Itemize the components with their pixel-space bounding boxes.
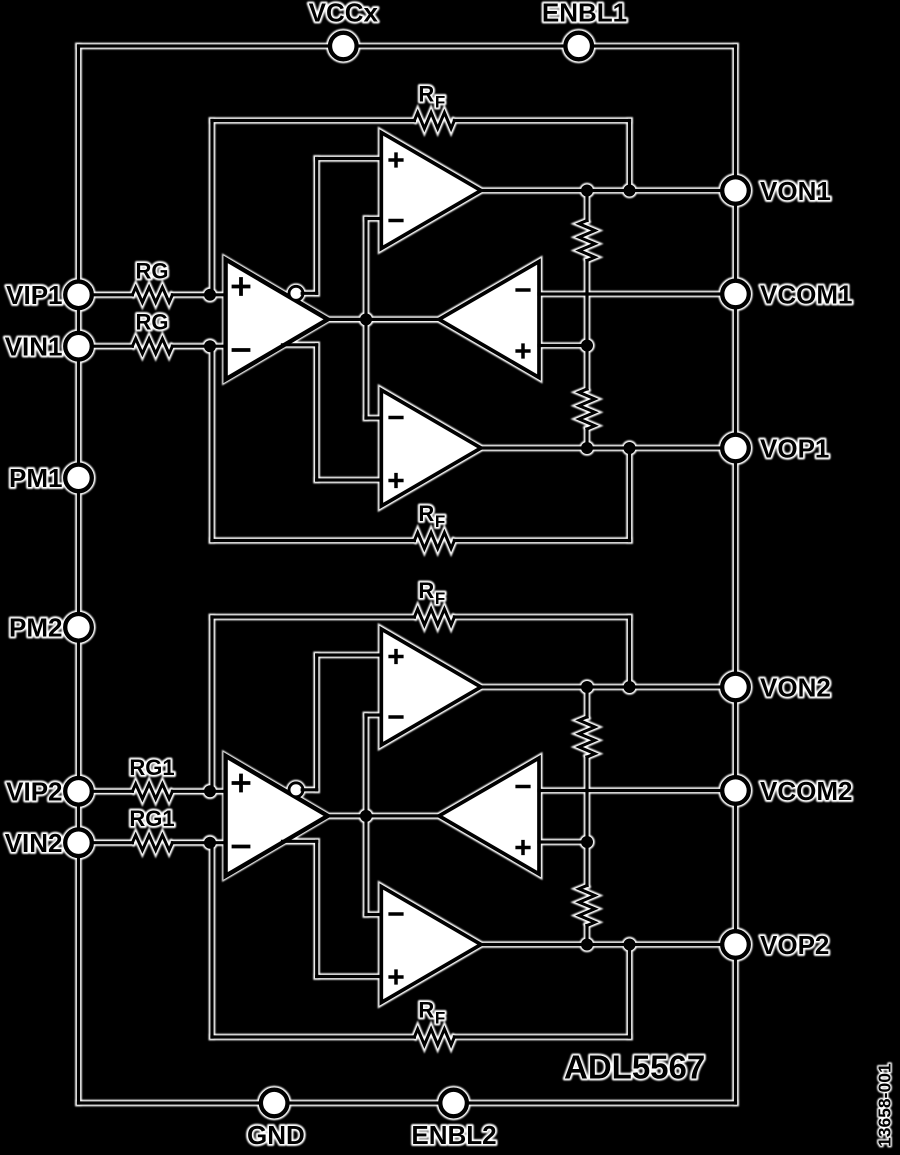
node VON2 divider tap <box>581 681 593 693</box>
wire RF2 top left segment <box>212 615 414 618</box>
op-amp top output buffer ch1 <box>381 133 481 249</box>
node VON1 feedback tap <box>624 185 636 197</box>
wire RF2 bottom rise to VOP2 <box>628 945 631 1038</box>
terminal VOP2 <box>722 931 749 958</box>
wire + input bottom buffer ch2 <box>317 975 382 978</box>
resistor RG1 lower <box>132 835 172 850</box>
svg-text:RG: RG <box>136 310 169 335</box>
node VON1 divider tap <box>581 185 593 197</box>
node summing junction - ch1 <box>204 340 216 352</box>
resistor divider upper ch1 <box>579 221 595 261</box>
wire + input top buffer ch2 <box>317 653 382 656</box>
inverting output bubble ch1 <box>289 286 303 300</box>
plus marker top buffer ch2 <box>388 649 403 664</box>
wire bubble output to bus ch2 <box>302 788 317 791</box>
plus marker CM amp ch1 <box>515 343 530 358</box>
svg-text:R: R <box>418 501 434 526</box>
plus marker bottom buffer ch1 <box>388 473 403 488</box>
wire - input top buffer ch1 <box>366 217 381 220</box>
svg-text:VIP1: VIP1 <box>6 280 62 310</box>
svg-text:GND: GND <box>247 1120 305 1150</box>
wire left input rail <box>77 46 80 1103</box>
wire + input bottom buffer ch1 <box>317 478 382 481</box>
op-amp bottom output buffer ch2 <box>381 887 481 1003</box>
op-amp main differential amp A2 <box>226 756 328 876</box>
svg-text:VCOM1: VCOM1 <box>760 279 852 309</box>
wire RF2 top loop vertical <box>210 617 213 791</box>
resistor RF (RF) bottom <box>414 1029 454 1045</box>
node summing junction + ch1 <box>204 289 216 301</box>
wire VOP2 output line <box>481 943 736 946</box>
svg-text:VCCx: VCCx <box>309 0 379 28</box>
wire bottom ground rail <box>79 1101 736 1104</box>
wire RF2 bottom left segment <box>212 1035 414 1038</box>
svg-text:RG1: RG1 <box>129 755 174 780</box>
minus marker bottom buffer ch2 <box>388 912 403 916</box>
resistor RG lower <box>132 339 172 354</box>
wire main-output bus ch2 <box>364 715 367 915</box>
wire top supply rail <box>79 44 736 47</box>
terminal VCOM2 <box>722 777 749 804</box>
wire RF2 top drop to VON2 <box>628 617 631 687</box>
minus marker bottom buffer ch1 <box>388 416 403 420</box>
svg-text:RG1: RG1 <box>129 806 174 831</box>
svg-text:PM1: PM1 <box>9 463 62 493</box>
wire RG lower to summing node <box>172 345 225 348</box>
node divider midpoint ch2 <box>581 836 593 848</box>
wire divider lower segment a ch2 <box>585 842 588 886</box>
terminal GND <box>261 1090 288 1117</box>
wire VCOM2 sense line <box>539 789 736 792</box>
terminal VON1 <box>722 177 749 204</box>
wire divider upper segment b ch1 <box>585 261 588 346</box>
minus marker top buffer ch2 <box>388 715 403 719</box>
wire main-output bus ch1 <box>364 219 367 419</box>
resistor divider lower ch2 <box>579 886 595 926</box>
wire RF2 bottom right segment <box>454 1035 629 1038</box>
svg-text:VOP1: VOP1 <box>760 433 829 463</box>
node summing junction - ch2 <box>204 837 216 849</box>
minus marker CM amp ch1 <box>515 288 530 292</box>
resistor RF (RF) top <box>414 609 454 625</box>
wire main amp output to CM amp ch2 <box>328 814 439 817</box>
wire - input bottom buffer ch1 <box>366 416 381 419</box>
wire RF1 top left segment <box>212 119 414 122</box>
svg-text:R: R <box>418 998 434 1023</box>
op-amp main differential amp A1 <box>226 259 328 379</box>
node VOP1 feedback tap <box>624 442 636 454</box>
svg-text:F: F <box>435 93 445 112</box>
node VOP2 divider tap <box>581 939 593 951</box>
wire divider lower segment b ch1 <box>585 429 588 448</box>
wire divider lower segment a ch1 <box>585 346 588 390</box>
op-amp top output buffer ch2 <box>381 629 481 745</box>
wire divider upper segment a ch2 <box>585 687 588 717</box>
wire RF1 bottom left segment <box>212 539 414 542</box>
wire RG1 lower to summing node <box>172 841 225 844</box>
resistor RG1 upper <box>132 784 172 799</box>
terminal VIP2 <box>65 778 92 805</box>
resistor divider lower ch1 <box>579 389 595 429</box>
minus input marker main amp ch1 <box>232 348 251 352</box>
wire VON1 output line <box>481 189 736 192</box>
wire RF1 top drop to VON1 <box>628 121 631 191</box>
wire divider upper segment b ch2 <box>585 757 588 842</box>
wire - input top buffer ch2 <box>366 713 381 716</box>
wire VIN1 input <box>79 345 133 348</box>
svg-text:R: R <box>418 578 434 603</box>
wire VIN2 input <box>79 841 133 844</box>
svg-text:VCOM2: VCOM2 <box>760 776 852 806</box>
wire VOP1 output line <box>481 446 736 449</box>
plus marker bottom buffer ch2 <box>388 969 403 984</box>
node summing junction + ch2 <box>204 785 216 797</box>
svg-text:VON1: VON1 <box>760 176 831 206</box>
svg-text:PM2: PM2 <box>9 613 62 643</box>
op-amp bottom output buffer ch1 <box>381 390 481 506</box>
wire VIP2 input <box>79 790 133 793</box>
wire lower output to bus ch1 <box>283 343 317 346</box>
wire divider upper segment a ch1 <box>585 191 588 221</box>
wire lower-output bus ch2 <box>315 841 318 976</box>
wire RF1 bottom loop vertical <box>210 346 213 540</box>
svg-text:F: F <box>435 1009 445 1028</box>
minus input marker main amp ch2 <box>232 845 251 849</box>
wire lower output to bus ch2 <box>283 840 317 843</box>
svg-text:VON2: VON2 <box>760 672 831 702</box>
plus input marker main amp ch1 <box>232 277 251 296</box>
node main output junction ch2 <box>360 810 372 822</box>
svg-text:VIN1: VIN1 <box>5 332 63 362</box>
resistor RG upper <box>132 287 172 302</box>
terminal ENBL1 <box>565 33 592 60</box>
svg-text:13658-001: 13658-001 <box>875 1063 895 1147</box>
wire right output rail <box>734 46 737 1103</box>
terminal VOP1 <box>722 435 749 462</box>
wire lower-output bus ch1 <box>315 345 318 480</box>
terminal VCCx <box>330 33 357 60</box>
wire RF2 bottom loop vertical <box>210 843 213 1037</box>
svg-text:R: R <box>418 82 434 107</box>
inverting output bubble ch2 <box>289 783 303 797</box>
wire VON2 output line <box>481 685 736 688</box>
terminal PM2 <box>65 614 92 641</box>
wire - input bottom buffer ch2 <box>366 913 381 916</box>
node VOP2 feedback tap <box>624 939 636 951</box>
wire VIP1 input <box>79 293 133 296</box>
resistor RF (RF) top <box>414 113 454 129</box>
wire VCOM1 sense line <box>539 292 736 295</box>
svg-text:F: F <box>435 512 445 531</box>
wire main amp output to CM amp ch1 <box>328 318 439 321</box>
minus marker top buffer ch1 <box>388 219 403 223</box>
plus input marker main amp ch2 <box>232 774 251 793</box>
svg-text:F: F <box>435 589 445 608</box>
svg-text:VIP2: VIP2 <box>6 777 62 807</box>
plus marker top buffer ch1 <box>388 152 403 167</box>
wire RF1 bottom rise to VOP1 <box>628 448 631 541</box>
terminal VIN1 <box>65 333 92 360</box>
svg-text:VOP2: VOP2 <box>760 930 829 960</box>
terminal VIP1 <box>65 282 92 309</box>
terminal PM1 <box>65 465 92 492</box>
minus marker CM amp ch2 <box>515 785 530 789</box>
svg-text:VIN2: VIN2 <box>5 828 63 858</box>
svg-text:RG: RG <box>136 258 169 283</box>
terminal VON2 <box>722 674 749 701</box>
wire inverted-output bus upper ch2 <box>315 655 318 790</box>
wire RF2 top right segment <box>454 615 629 618</box>
wire RG upper to summing node <box>172 293 225 296</box>
plus marker CM amp ch2 <box>515 840 530 855</box>
terminal VIN2 <box>65 829 92 856</box>
node VON2 feedback tap <box>624 681 636 693</box>
terminal ENBL2 <box>440 1090 467 1117</box>
wire CM amp + input to divider ch1 <box>539 344 587 347</box>
wire + input top buffer ch1 <box>317 157 382 160</box>
wire RG1 upper to summing node <box>172 790 225 793</box>
wire bubble output to bus ch1 <box>302 292 317 295</box>
svg-text:ENBL1: ENBL1 <box>542 0 627 28</box>
op-amp common-mode amp ch1 <box>439 262 539 378</box>
wire divider lower segment b ch2 <box>585 926 588 945</box>
wire RF1 bottom right segment <box>454 539 629 542</box>
resistor RF (RF) bottom <box>414 533 454 549</box>
wire RF1 top loop vertical <box>210 121 213 295</box>
node divider midpoint ch1 <box>581 340 593 352</box>
svg-text:ENBL2: ENBL2 <box>411 1120 496 1150</box>
terminal VCOM1 <box>722 281 749 308</box>
wire inverted-output bus upper ch1 <box>315 159 318 294</box>
node VOP1 divider tap <box>581 442 593 454</box>
node main output junction ch1 <box>360 313 372 325</box>
resistor divider upper ch2 <box>579 717 595 757</box>
wire CM amp + input to divider ch2 <box>539 840 587 843</box>
wire RF1 top right segment <box>454 119 629 122</box>
svg-text:ADL5567: ADL5567 <box>564 1049 705 1086</box>
op-amp common-mode amp ch2 <box>439 758 539 874</box>
